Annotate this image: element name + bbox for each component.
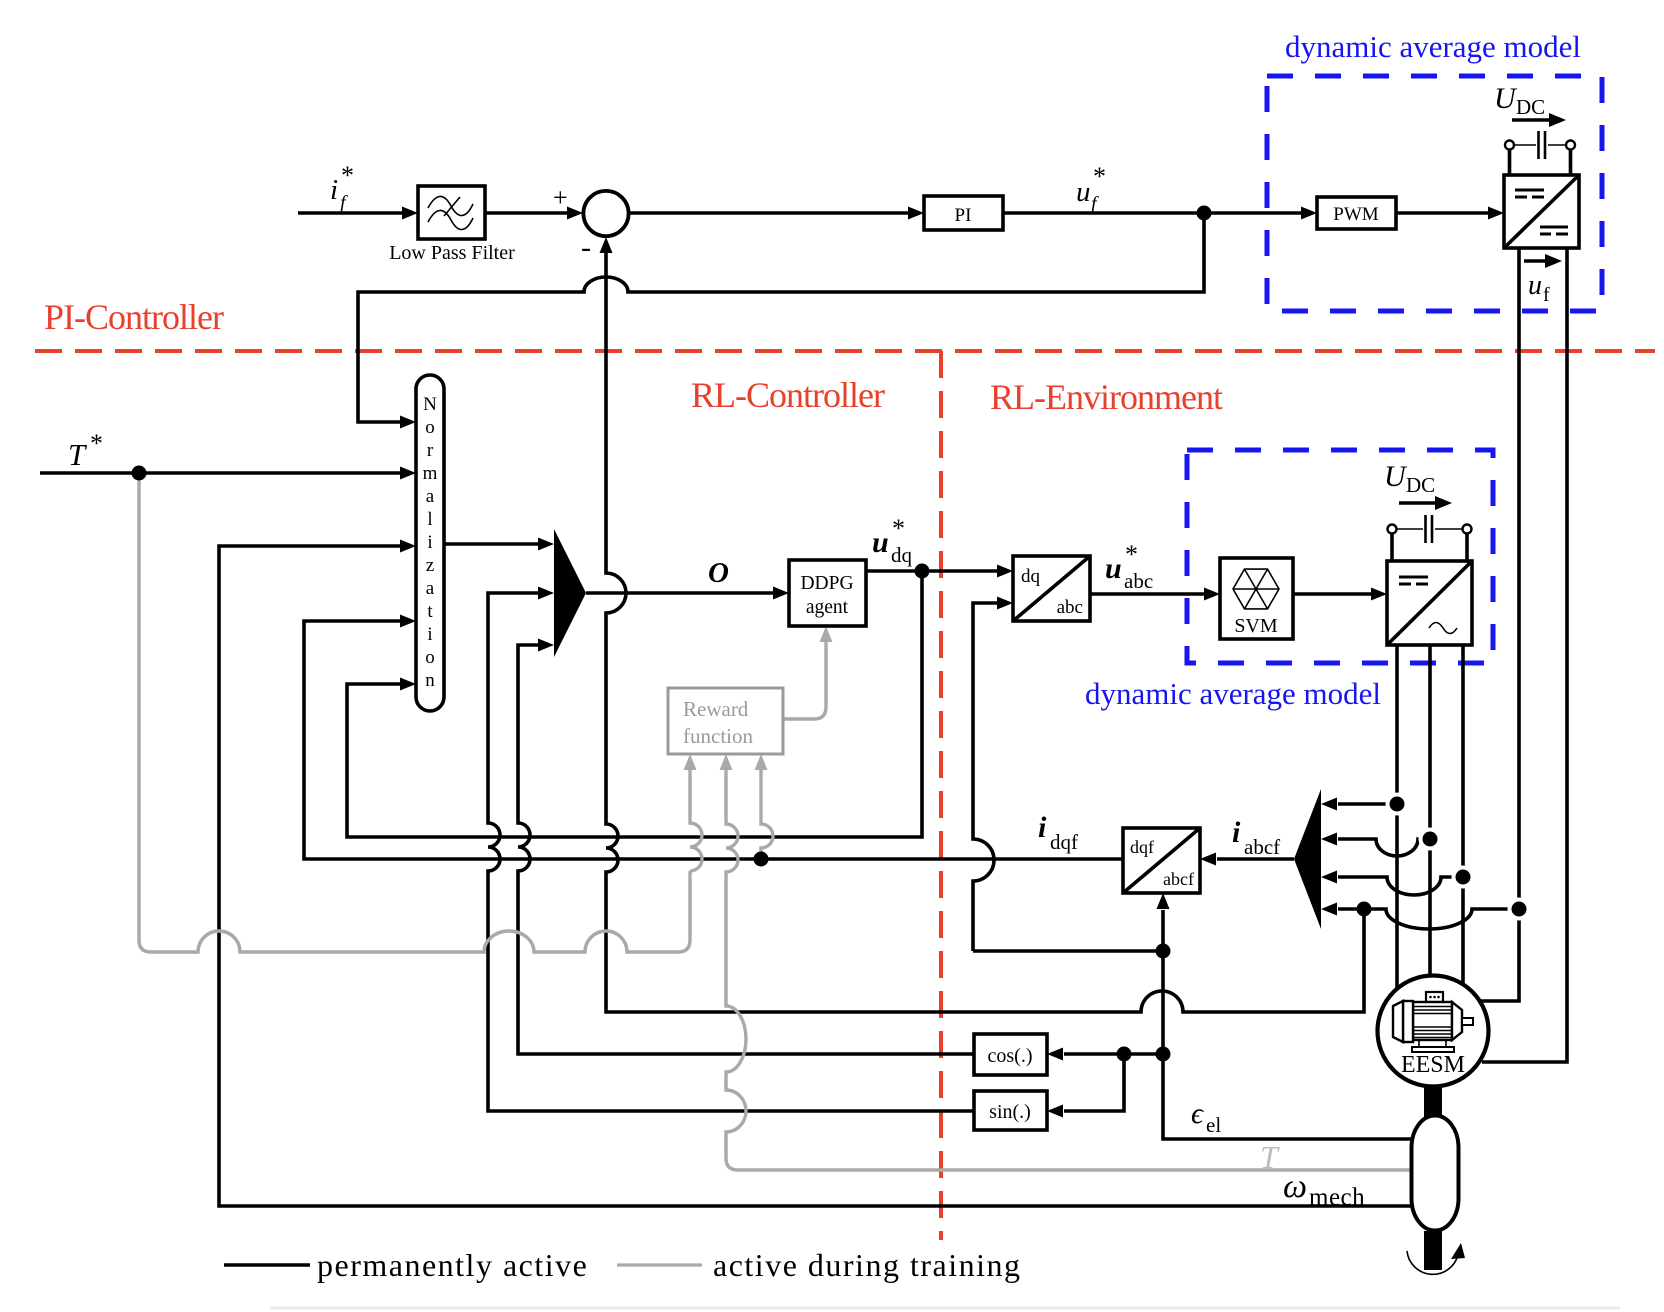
label: PI-Controller [44,297,224,337]
junction dot: u_dq* branch [915,564,930,579]
low pass filter block [418,186,485,239]
svg-text:PWM: PWM [1333,204,1379,225]
wire: epsilon_el from shaft encoder [973,951,1412,1139]
svg-text:dq: dq [1021,566,1041,587]
svg-text:abc: abc [1124,569,1153,593]
svg-text:N: N [423,394,437,415]
red dashed boundary horizontal [35,349,1655,353]
label: i_abcf (measured currents abcf) [1232,816,1280,859]
PWM block [1317,197,1396,229]
svg-text:*: * [1093,162,1106,191]
label: O (observation vector) [708,557,729,589]
svg-text:r: r [427,440,434,461]
label: u_dq* (voltage reference dq) [872,514,913,567]
shaft lower section with rotation arrow [1407,1231,1465,1274]
svg-text:sin(.): sin(.) [989,1101,1031,1123]
label: dynamic average model (top) [1285,29,1581,64]
junction dot: i_dqf reward tap [754,852,769,867]
wire: inverter phase c leg to EESM [1461,645,1465,986]
wire: demultiplexer input 3 (phase c current) [1321,871,1463,896]
red dashed boundary vertical [939,351,943,1240]
cos(.) block [974,1034,1047,1075]
label: U_DC (stator inverter) [1384,460,1452,510]
wire: u_dq* feedback to Normalization input 5 [347,571,922,837]
label: i_f* (field current reference) [330,161,354,214]
svg-text:O: O [708,557,729,589]
DC-link capacitor (field converter) [1505,131,1575,176]
wire: T* input to Normalization input 2 [40,467,416,480]
wire: i_dqf tap to reward function (gray) [755,754,774,859]
demultiplexer (current measurement) [1294,789,1321,929]
wire: summing junction to PI [629,207,924,220]
wire: reward function to DDPG agent (gray) [783,626,833,719]
svg-text:RL-Controller: RL-Controller [691,375,885,415]
wire: T* reward input (gray, active during training) [139,473,702,952]
svg-text:EESM: EESM [1401,1052,1465,1078]
legend: active during training [617,1247,1021,1283]
svg-text:PI-Controller: PI-Controller [44,297,224,337]
multiplexer (observation mux) [554,529,586,657]
shaft coupling (oval) [1412,1116,1459,1231]
wire: demultiplexer input 2 (phase b current) [1321,833,1430,857]
svg-text:Reward: Reward [683,697,749,721]
shaft upper section [1424,1086,1442,1117]
svg-text:z: z [426,555,434,576]
svg-text:T: T [68,437,88,472]
svg-text:*: * [341,161,354,190]
svg-text:el: el [1206,1113,1221,1137]
dq/abc transform block [1013,556,1090,621]
svg-text:o: o [425,647,435,668]
svg-text:dynamic average model: dynamic average model [1285,29,1581,64]
junction dot: phase c current tap [1452,866,1475,889]
svg-text:dqf: dqf [1130,837,1154,857]
svg-text:l: l [427,509,432,530]
svg-text:u: u [1076,176,1091,208]
wire: PWM to DC-DC converter [1396,207,1504,220]
svg-text:i: i [1038,811,1047,844]
wire: u_f left conductor from DC-DC converter to EESM field [1481,248,1519,1001]
svg-text:abcf: abcf [1163,869,1194,889]
svg-text:Low Pass Filter: Low Pass Filter [389,242,515,264]
svg-text:i: i [1232,816,1241,849]
wire: error feedback into summing junction / i_f measurement line [600,237,1365,1012]
DDPG agent block [789,560,866,626]
wire: DDPG agent output u_dq* to dq/abc transform [866,565,1013,578]
svg-text:*: * [892,514,905,543]
label: T* (torque reference) [68,429,103,472]
svg-text:DC: DC [1406,473,1435,497]
svg-text:active during training: active during training [713,1247,1021,1283]
svg-text:dq: dq [891,543,913,567]
svg-text:u: u [1528,270,1542,301]
svg-text:*: * [1125,540,1138,569]
svg-text:o: o [425,417,435,438]
wire: i_f* input to Low Pass Filter [298,207,418,220]
svg-text:SVM: SVM [1234,615,1278,637]
svg-text:DC: DC [1516,95,1545,119]
svg-text:a: a [426,486,435,507]
wire: inverter phase a leg to EESM [1395,645,1399,989]
junction dot: epsilon_el at cos branch [1117,1047,1132,1062]
wire: PI output to PWM (u_f*) [1003,207,1317,220]
svg-text:f: f [1543,284,1550,306]
wire: i_abcf from demultiplexer to dqf/abcf transform [1200,853,1294,866]
junction dot: epsilon_el to abcf [1156,944,1171,959]
junction dot: epsilon_el vertical branch [1156,1047,1171,1062]
svg-text:t: t [427,601,433,622]
junction dot: phase a current tap [1386,793,1409,816]
label: u_abc* (voltage reference abc) [1105,540,1153,593]
svg-text:U: U [1384,460,1408,493]
PI controller block [924,196,1003,230]
sin(.) block [974,1091,1047,1130]
svg-text:u: u [872,526,889,559]
bottom page edge line [270,1307,1620,1310]
wire: omega_mech to Normalization input 3 [219,540,1412,1207]
wire: epsilon_el into dqf/abcf transform [1157,893,1170,951]
dqf/abcf transform block [1123,828,1200,893]
summing junction [553,183,629,264]
label: i_dqf (measured currents dqf) [1038,811,1078,854]
svg-text:ϵ: ϵ [1191,1097,1205,1130]
wire: cos(.) output to multiplexer bottom input [518,639,974,1055]
label: T (measured torque, gray) [1260,1139,1280,1175]
label: RL-Environment [990,377,1223,417]
wire: u_f* feedback to Normalization input 1 [358,213,1204,429]
wire: SVM to inverter [1293,588,1387,601]
label: omega_mech (mechanical speed) [1283,1168,1365,1211]
svg-text:abc: abc [1057,597,1083,618]
svg-text:i: i [427,532,432,553]
svg-text:cos(.): cos(.) [988,1045,1033,1067]
wire: observation O from multiplexer to DDPG agent [586,587,789,600]
svg-text:agent: agent [806,597,849,618]
wire: u_f right conductor from DC-DC converter to EESM field [1482,248,1567,1062]
blue dashed box: dynamic average model (field converter) [1267,76,1602,311]
label: u_f with arrow (field voltage) [1524,254,1562,306]
junction dot: phase b current tap [1419,828,1442,851]
wire: measured torque T to reward function and shaft (gray) [720,754,1413,1170]
label: Low Pass Filter [389,242,515,264]
label: RL-Controller [691,375,885,415]
wire: Normalization output to multiplexer [444,538,554,551]
svg-text:dynamic average model: dynamic average model [1085,676,1381,711]
svg-text:DDPG: DDPG [800,573,853,594]
svg-text:*: * [90,429,103,458]
wire: i_dqf from dqf/abcf box to Normalization input 4 [304,615,1123,860]
svg-text:-: - [581,231,591,264]
EESM machine [1378,976,1489,1087]
label: U_DC (field converter) [1494,82,1566,127]
svg-text:abcf: abcf [1244,835,1280,859]
wire: inverter phase b leg to EESM [1428,645,1432,977]
svg-text:m: m [423,463,438,484]
junction dot: u_f* branch [1197,206,1212,221]
svg-text:mech: mech [1309,1184,1365,1211]
svg-text:+: + [553,183,568,212]
label: dynamic average model (bottom) [1085,676,1381,711]
wire: epsilon_el to dq/abc transform lower input [973,597,1013,952]
svg-text:a: a [426,578,435,599]
label: u_f* (field voltage reference) [1076,162,1106,215]
svg-text:i: i [330,174,338,206]
svg-text:dqf: dqf [1050,830,1078,854]
svg-text:permanently active: permanently active [317,1247,588,1283]
DC-link capacitor (stator inverter) [1388,515,1472,562]
svg-text:i: i [427,624,432,645]
reward function block (gray) [668,688,783,754]
wire: Low Pass Filter to summing junction [485,207,583,220]
DC-AC inverter (stator) [1387,561,1472,645]
wire: u_abc* from dq/abc to SVM [1090,588,1220,601]
svg-text:n: n [425,670,435,691]
DC-DC converter (field) [1504,175,1579,248]
junction dot: field current tap [1508,898,1531,921]
wire: demultiplexer input 4 (field current) [1321,903,1519,930]
SVM block [1220,558,1293,639]
legend: permanently active [224,1247,588,1283]
svg-text:T: T [1260,1139,1280,1175]
svg-text:u: u [1105,552,1122,585]
svg-text:PI: PI [955,205,972,226]
wire: epsilon_el branch to cos and sin blocks [1047,1048,1163,1118]
svg-text:ω: ω [1283,1168,1307,1205]
junction dot: T* branch [132,466,147,481]
normalization block [416,375,444,711]
wire: demultiplexer input 1 (phase a current) [1321,798,1397,811]
blue dashed box: dynamic average model (stator inverter) [1187,450,1493,663]
svg-text:U: U [1494,82,1518,115]
svg-text:RL-Environment: RL-Environment [990,377,1223,417]
label: epsilon_el (electrical angle) [1191,1097,1221,1137]
wire: sin(.) output to multiplexer middle input [488,587,974,1112]
junction dot: i_f measurement branch [1357,902,1372,917]
svg-text:function: function [683,724,753,748]
